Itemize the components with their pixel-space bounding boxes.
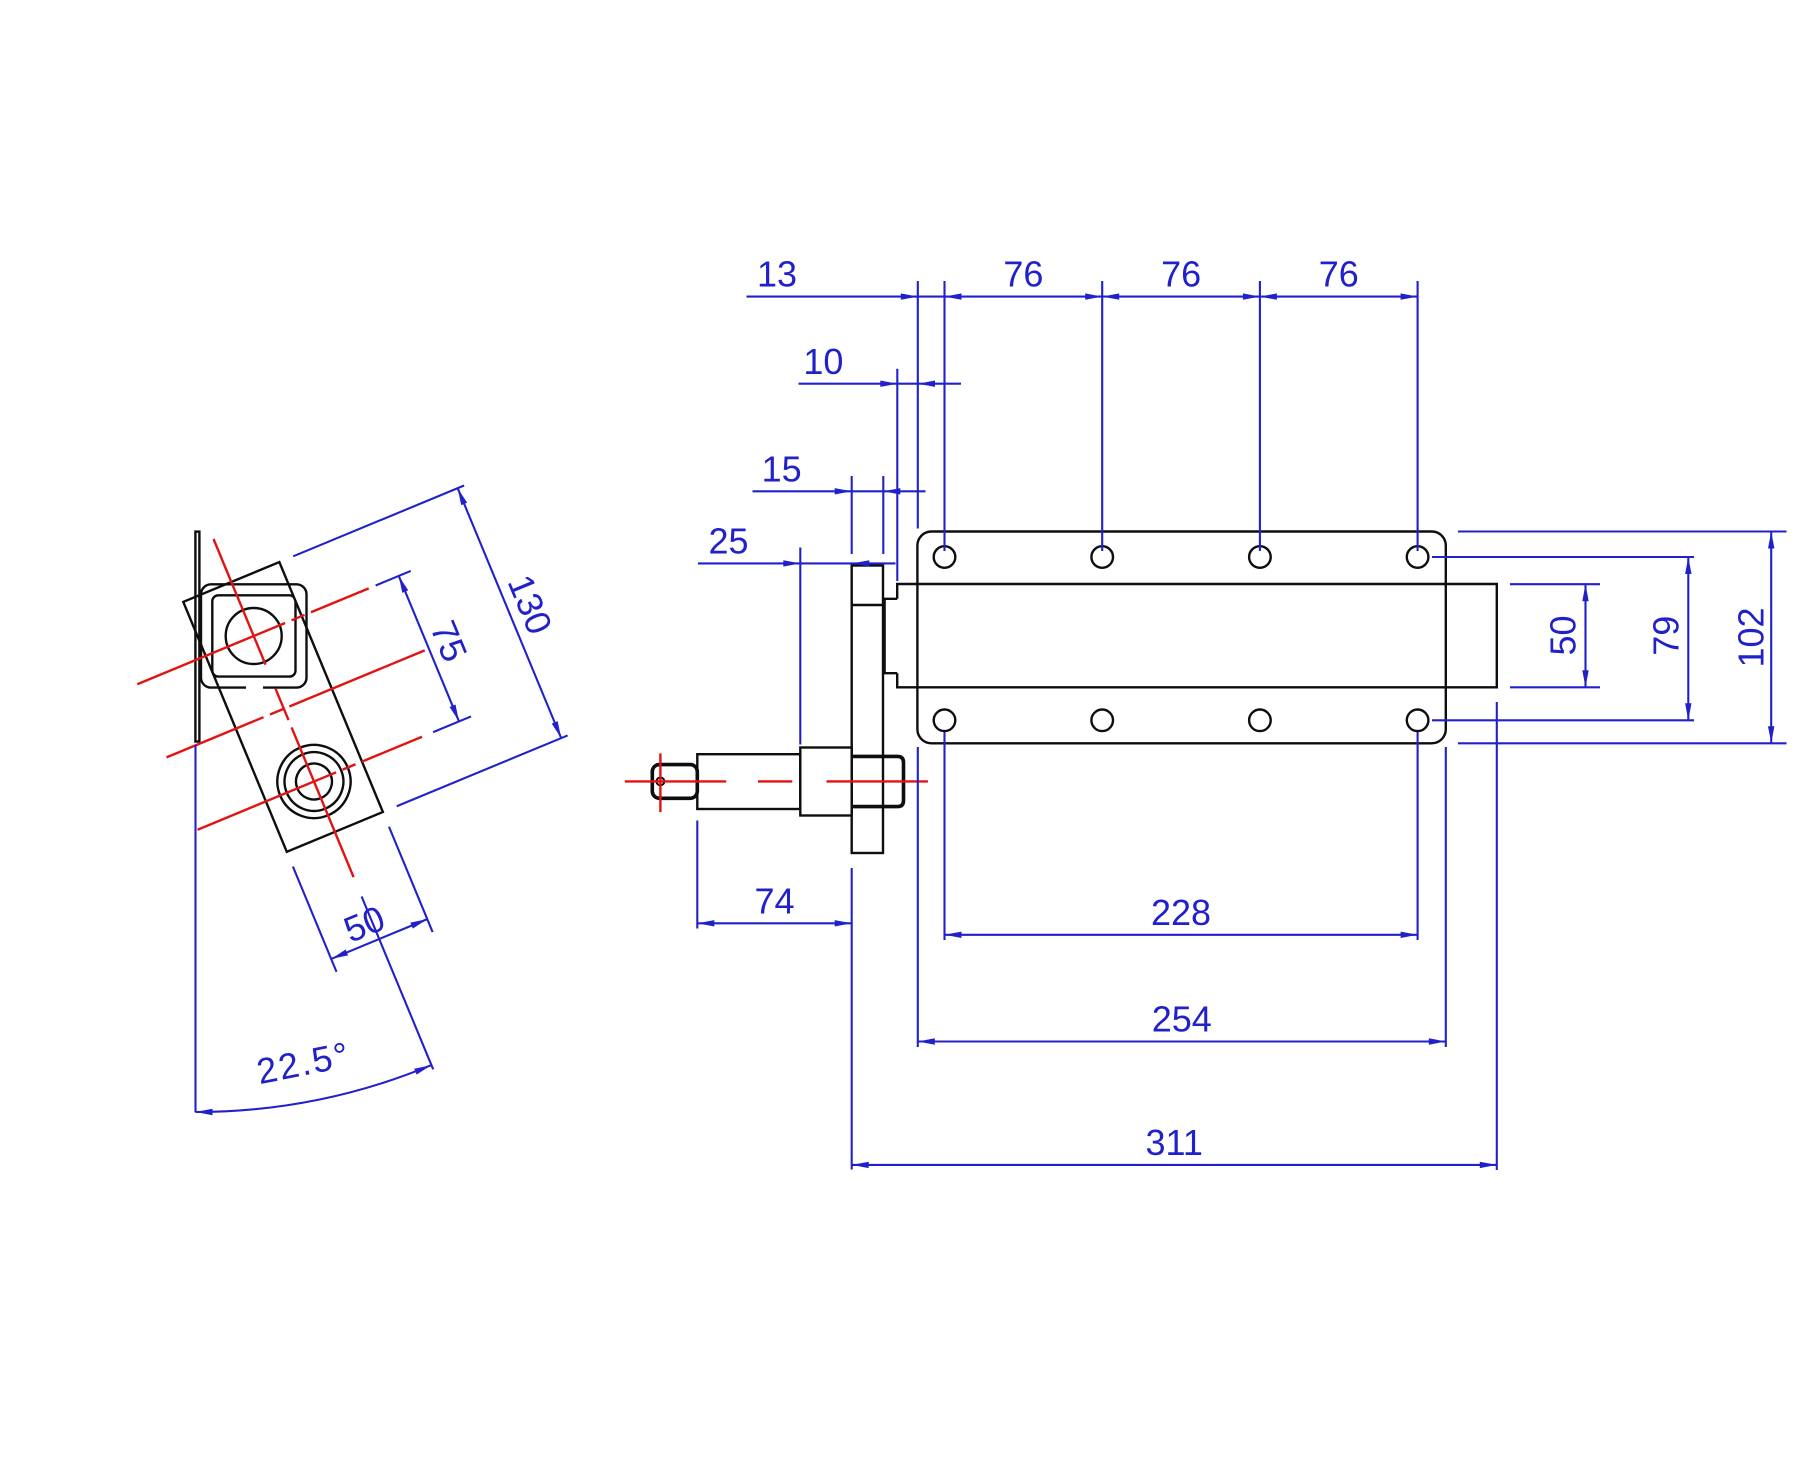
svg-text:79: 79 bbox=[1646, 616, 1687, 656]
svg-text:102: 102 bbox=[1731, 607, 1772, 667]
svg-text:74: 74 bbox=[754, 880, 794, 921]
svg-text:50: 50 bbox=[1542, 615, 1583, 655]
svg-text:76: 76 bbox=[1319, 254, 1359, 295]
svg-text:25: 25 bbox=[708, 521, 748, 562]
svg-text:311: 311 bbox=[1145, 1122, 1202, 1163]
svg-text:254: 254 bbox=[1152, 999, 1212, 1040]
svg-text:10: 10 bbox=[803, 341, 843, 382]
svg-text:13: 13 bbox=[757, 254, 797, 295]
svg-text:228: 228 bbox=[1151, 892, 1211, 933]
svg-text:76: 76 bbox=[1161, 254, 1201, 295]
svg-text:15: 15 bbox=[762, 448, 802, 489]
svg-text:76: 76 bbox=[1003, 254, 1043, 295]
